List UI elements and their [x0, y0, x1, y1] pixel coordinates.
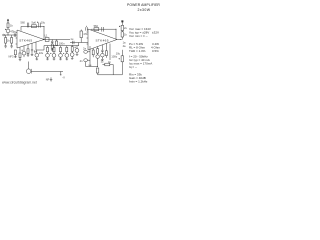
- capacitor C14: [75, 49, 79, 53]
- wire vertical divider: [89, 46, 91, 67]
- capacitor C4 electrolytic: [39, 23, 41, 28]
- svg-text:NF: NF: [46, 78, 50, 82]
- wire speaker riser: [28, 62, 30, 69]
- terminal +V top left: [7, 20, 9, 23]
- parts list: [129, 27, 161, 84]
- capacitor C20: [101, 45, 103, 52]
- svg-text:0.5%: 0.5%: [152, 49, 159, 53]
- resistor R19: [96, 68, 98, 73]
- wire output U1: [44, 39, 70, 41]
- svg-text:Iq = --: Iq = --: [129, 65, 137, 69]
- svg-text:22u: 22u: [39, 51, 44, 55]
- ground: [19, 58, 22, 61]
- svg-text:±32V: ±32V: [152, 31, 159, 35]
- wire: [109, 44, 111, 60]
- capacitor C13: [70, 53, 74, 57]
- svg-text:2x30W: 2x30W: [138, 8, 151, 12]
- capacitor C5 electrolytic: [22, 51, 26, 55]
- resistor R14 feedback: [94, 28, 99, 31]
- node top right: [122, 21, 124, 23]
- ground: [27, 53, 30, 56]
- svg-text:STK465: STK465: [19, 39, 32, 43]
- svg-text:47k: 47k: [83, 32, 88, 36]
- node dots: [7, 26, 121, 67]
- resistor R20: [105, 63, 110, 66]
- inductor L1: [45, 38, 49, 42]
- svg-text:-V: -V: [62, 75, 65, 79]
- wire right stack: [121, 22, 123, 39]
- wire bottom bracket: [86, 62, 98, 67]
- wire rail right: [98, 74, 123, 76]
- capacitor C21: [101, 53, 105, 57]
- feedback wire U2: [91, 29, 116, 39]
- wire output U2: [117, 39, 121, 41]
- svg-text:www.circuitdiagram.net: www.circuitdiagram.net: [2, 80, 37, 84]
- capacitor C18 output: [121, 25, 123, 30]
- capacitor C6: [31, 50, 33, 53]
- resistor R7 zobel: [51, 44, 53, 48]
- op-amp U2 STK465: [88, 29, 117, 50]
- capacitor C11: [59, 54, 63, 58]
- resistor R3: [11, 38, 13, 44]
- capacitor C16 feedback: [102, 27, 104, 32]
- ground: [4, 46, 7, 48]
- label -Vcc: [60, 72, 62, 76]
- resistor R2: [5, 38, 7, 44]
- resistor R10: [60, 47, 62, 51]
- svg-text:THD = 1.0%: THD = 1.0%: [129, 49, 146, 53]
- resistor R9: [53, 47, 55, 51]
- ground: [51, 48, 54, 51]
- resistor R13 bias right: [80, 31, 82, 38]
- capacitor C23: [35, 53, 39, 57]
- terminal 2a right channel: [84, 50, 88, 53]
- wire: [6, 35, 12, 46]
- wire input: [5, 34, 18, 36]
- resistor R1: [7, 23, 9, 28]
- capacitor C22 bottom right: [121, 56, 123, 62]
- capacitor C17: [86, 26, 88, 31]
- capacitor C10: [52, 54, 56, 58]
- supply filter bus: [44, 45, 79, 47]
- resistor R4 feedback: [32, 25, 37, 28]
- svg-text:POWER AMPLIFIER: POWER AMPLIFIER: [127, 3, 160, 7]
- svg-text:STK465: STK465: [96, 38, 109, 42]
- under-triangle pin drops U1: [20, 42, 44, 53]
- svg-text:Vcc min = ± --: Vcc min = ± --: [129, 34, 148, 38]
- ground: [50, 77, 53, 81]
- capacitor C15 input coupling right: [70, 41, 88, 44]
- wire: [7, 28, 9, 35]
- resistor R6: [27, 49, 29, 54]
- resistor R12: [71, 47, 73, 52]
- capacitor C9: [46, 54, 50, 58]
- svg-text:560: 560: [21, 20, 26, 24]
- capacitor C8: [56, 40, 58, 46]
- svg-text:10u: 10u: [41, 20, 46, 24]
- op-amp U1 STK465: [17, 30, 44, 48]
- svg-text:5p6: 5p6: [32, 21, 37, 25]
- wire ground rail left: [32, 71, 64, 73]
- resistor R17: [97, 49, 99, 54]
- capacitor C12: [65, 54, 69, 58]
- wire: [31, 53, 34, 56]
- pin stubs U1: [16, 33, 17, 45]
- resistor R16: [92, 50, 94, 55]
- capacitor C19: [96, 55, 100, 59]
- pin stubs U2: [87, 32, 88, 44]
- capacitor C2 coupling: [14, 33, 15, 36]
- svg-text:560: 560: [94, 24, 99, 28]
- ground: [10, 46, 13, 48]
- resistor R21: [14, 50, 16, 55]
- resistor R15: [121, 32, 123, 37]
- svg-text:NF3: NF3: [9, 54, 14, 58]
- svg-text:10u: 10u: [116, 52, 121, 56]
- speaker SP1: [26, 69, 31, 74]
- resistor R18: [105, 51, 107, 56]
- svg-text:100n: 100n: [59, 41, 65, 45]
- resistor R8: [47, 47, 49, 51]
- wire: [88, 52, 91, 60]
- capacitor C1: [6, 29, 10, 33]
- svg-text:fmin = 1.2kHz: fmin = 1.2kHz: [129, 80, 148, 84]
- feedback wire U1: [21, 27, 44, 40]
- resistor R11: [66, 47, 68, 51]
- resistor R5: [19, 53, 21, 58]
- terminal speaker: [84, 59, 88, 62]
- capacitor C7 zobel: [51, 40, 53, 45]
- input jack J1: [3, 34, 5, 36]
- capacitor C3 feedback: [27, 23, 29, 28]
